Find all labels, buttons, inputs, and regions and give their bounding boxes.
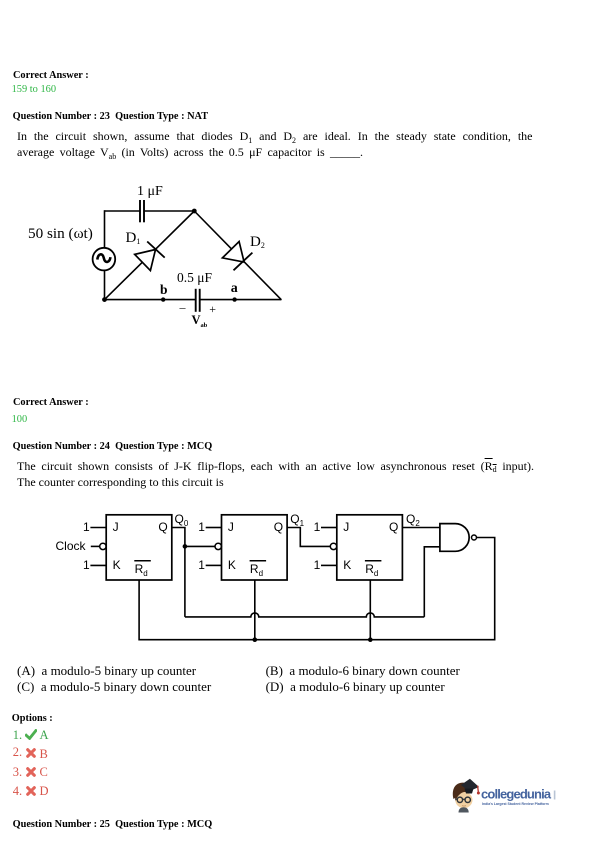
U3 K input stub: [321, 564, 337, 566]
wire diagonal right (D2 branch): [194, 211, 281, 300]
label U1 input 1 (K): [83, 559, 90, 571]
logo cropped mark after wordmark: [554, 791, 556, 800]
NAND output bubble: [472, 535, 477, 540]
icon cross row 3: [26, 767, 36, 777]
node top junction dot: [192, 209, 197, 214]
label U1 J: [113, 521, 119, 533]
label U3 input 1 (K): [314, 559, 321, 571]
svg-text:collegedunia: collegedunia: [481, 787, 552, 802]
label D1: [126, 231, 141, 246]
label U1 Q: [158, 521, 167, 533]
label U3 Rd: [365, 563, 378, 575]
label U2 input 1 (J): [198, 521, 205, 533]
node reset U2 dot: [253, 637, 258, 642]
node bottom-left junction dot: [102, 297, 107, 302]
label a: [231, 282, 238, 296]
logo mascot hair fringe: [455, 788, 471, 801]
flip-flop U3 box: [337, 515, 403, 580]
label Q0: [175, 513, 189, 525]
option A text: [17, 664, 196, 677]
logo mascot cap board: [461, 779, 479, 792]
label source 50 sin(wt): [28, 226, 93, 241]
option C text: [17, 680, 211, 693]
U1 Rd overline: [134, 560, 151, 562]
label U3 input 1 (J): [314, 521, 321, 533]
label 0.5uF: [177, 271, 212, 285]
icon check (correct): [25, 729, 37, 740]
logo mascot mouth: [462, 805, 466, 808]
option row 2 letter B: [40, 748, 48, 761]
wire top horizontal left segment: [105, 210, 141, 212]
wire diagonal left (anode branch D1): [105, 211, 195, 300]
label Q1: [290, 513, 304, 525]
logo mascot glasses: [457, 797, 462, 802]
label D2: [250, 235, 265, 250]
diode D1 triangle: [135, 250, 156, 271]
logo mascot body: [459, 807, 469, 812]
diode D1 cathode bar: [147, 242, 165, 258]
option row 1 letter A: [40, 729, 49, 742]
node reset U3 dot: [368, 637, 373, 642]
Question 23 text line 1 (justified): [17, 130, 533, 142]
wire left vertical upper: [104, 210, 106, 248]
AC source sine symbol: [97, 254, 110, 262]
U2 J input stub: [206, 527, 222, 529]
label U1 K: [113, 559, 121, 571]
NAND lower input wire from Q0 bus: [424, 547, 440, 617]
wire left vertical lower: [104, 270, 106, 299]
label minus: [180, 301, 186, 313]
wire Q0 output: [172, 528, 185, 617]
U1 clock bubble: [100, 543, 106, 549]
U3 Rd overline: [365, 560, 382, 562]
diode D2 cathode bar: [234, 253, 253, 271]
capacitor C-1uF plates: [139, 200, 141, 222]
Question 24 text line 2: [17, 476, 224, 488]
node b dot: [161, 297, 165, 301]
U3 J input stub: [321, 527, 337, 529]
U2 Rd overline: [250, 560, 267, 562]
U1 K input stub: [90, 564, 106, 566]
wire Q0 to U2 clock: [185, 545, 215, 547]
answer value 159 to 160: [12, 85, 56, 95]
label U1 Rd: [135, 563, 148, 575]
Options header: [12, 714, 53, 724]
NAND gate U4 body: [440, 524, 469, 552]
label U2 J: [228, 521, 234, 533]
option row 4 letter D: [40, 785, 49, 798]
node Q0 branch dot: [183, 544, 188, 549]
U3 clock bubble: [330, 543, 336, 549]
logo mascot cap base: [465, 789, 474, 794]
node a dot: [232, 297, 236, 301]
icon cross row 4: [26, 786, 36, 796]
Question 23 text line 2: [17, 146, 363, 158]
capacitor C-0.5uF plates: [195, 289, 197, 312]
label Vab: [192, 314, 208, 327]
label Clock: [56, 540, 86, 552]
option row 4 number: [13, 785, 22, 798]
label plus: [209, 303, 216, 315]
U2 reset vertical wire: [254, 580, 256, 640]
logo mascot tassel: [477, 786, 480, 792]
Question 24 text line 1: [17, 460, 534, 472]
label U3 Q: [389, 521, 398, 533]
option row 1 number: [13, 729, 22, 742]
option D text: [266, 680, 445, 693]
Question 23 header: [13, 112, 208, 122]
Correct Answer label (Q22): [13, 71, 89, 81]
label Q2: [406, 513, 420, 525]
clock wire: [91, 545, 100, 547]
option row 2 number: [13, 746, 22, 759]
bus Q0 horizontal with hops: [185, 613, 424, 617]
label U3 J: [343, 521, 349, 533]
U1 J input stub: [90, 527, 106, 529]
wire bottom horizontal left segment: [105, 299, 196, 301]
answer value 100: [12, 415, 28, 425]
logo mascot face: [455, 792, 472, 808]
U2 clock bubble: [215, 543, 221, 549]
label b: [160, 283, 168, 297]
U3 reset vertical wire: [369, 580, 371, 640]
flip-flop U2 box: [222, 515, 288, 580]
wire Q1 output: [287, 528, 330, 547]
wire top horizontal right segment: [144, 210, 194, 212]
svg-text:India's Largest Student Review: India's Largest Student Review Platform: [482, 802, 549, 806]
label U2 Rd: [250, 563, 263, 575]
diode D2 triangle: [222, 242, 244, 263]
label U2 Q: [274, 521, 283, 533]
option row 3 number: [13, 766, 22, 779]
wire Q2 output to NAND: [402, 527, 440, 529]
flip-flop U1 box: [106, 515, 172, 580]
U2 K input stub: [206, 564, 222, 566]
label U1 input 1 (J): [83, 521, 90, 533]
wire bottom horizontal right segment: [200, 299, 282, 301]
label 1uF: [137, 185, 163, 199]
logo mascot hair: [453, 783, 468, 799]
icon cross row 2: [26, 748, 36, 758]
option B text: [266, 664, 460, 677]
Question 24 header: [13, 442, 213, 452]
option row 3 letter C: [40, 766, 48, 779]
collegedunia logo group: [449, 776, 569, 818]
NAND output feedback wire: [139, 538, 495, 640]
Question 25 header: [13, 820, 213, 830]
Correct Answer label (Q23): [13, 398, 89, 408]
label U3 K: [343, 559, 351, 571]
AC source circle: [93, 248, 116, 271]
label U2 input 1 (K): [198, 559, 205, 571]
label U2 K: [228, 559, 236, 571]
